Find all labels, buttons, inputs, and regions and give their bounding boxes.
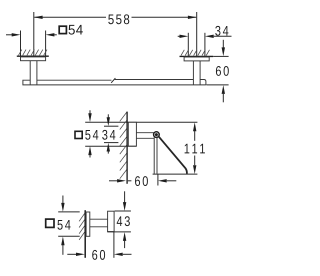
reference line 54 bottom bbox=[85, 145, 136, 147]
dimension 60 mid left arrow bbox=[117, 179, 126, 182]
dimension 54 bottom-up arrow bbox=[88, 146, 91, 155]
dimension 60 mid right arrow bbox=[158, 179, 167, 182]
dimension 558 right arrow bbox=[188, 16, 197, 19]
reference line 54 top bbox=[85, 121, 197, 123]
dimension 60 mid text bbox=[135, 176, 148, 186]
dimension 54 top-down arrow bbox=[88, 113, 91, 122]
dimension 558 line left segment bbox=[34, 16, 106, 18]
wall hatch right post bbox=[181, 50, 210, 56]
dimension 60 mid left stub bbox=[128, 180, 132, 182]
wall extension for 60 bbox=[213, 55, 228, 57]
wall line middle bbox=[126, 112, 128, 184]
dimension 54 right tail bbox=[54, 34, 56, 36]
dimension 111 text bbox=[185, 144, 205, 154]
dim 60 bottom left arrow bbox=[76, 253, 85, 256]
dimension 34 left arrow bbox=[180, 35, 189, 38]
dimension 111 bottom arrow bbox=[193, 165, 196, 174]
hook dim 54 bottom-up arrow bbox=[61, 237, 64, 246]
extension line 34 left edge bbox=[187, 33, 189, 57]
hook dim 54 bottom tail bbox=[62, 245, 64, 255]
flange bottom bbox=[86, 212, 90, 236]
dimension 54 right arrow bbox=[46, 33, 55, 36]
hook head bbox=[108, 211, 115, 231]
extension line left flange right edge bbox=[45, 31, 47, 57]
bar bottom extension line bbox=[206, 84, 228, 86]
right post stem bbox=[193, 61, 200, 85]
reference line 34 bottom bbox=[104, 142, 118, 144]
left flange bbox=[21, 57, 46, 61]
pivot circle bbox=[154, 132, 160, 138]
hook dim 54 top-down arrow bbox=[61, 203, 64, 212]
reference 43 bottom bbox=[107, 231, 131, 233]
dimension 60 top tail bbox=[222, 40, 224, 49]
extension line left flange left edge bbox=[20, 31, 22, 57]
dimension 60 bottom arrow bbox=[222, 85, 225, 94]
wall hatch bottom bbox=[79, 214, 85, 240]
extension line flap front bbox=[157, 175, 159, 186]
flap diagonal bbox=[159, 136, 187, 174]
dimension 558 text bbox=[108, 14, 129, 24]
bottom reference line bbox=[153, 173, 198, 175]
dimension 34 right tail bbox=[214, 35, 232, 37]
hook arm bbox=[90, 219, 108, 227]
dimension 60 text bbox=[216, 66, 229, 76]
dimension 54 bottom tail bbox=[89, 155, 91, 158]
dimension 54 left arrow bbox=[12, 33, 21, 36]
dimension 558 left arrow bbox=[34, 16, 43, 19]
dimension 60 mid left tail bbox=[109, 180, 117, 182]
dimension 111 line lower bbox=[194, 156, 196, 166]
dimension 60 bottom tail bbox=[222, 94, 224, 103]
dim 43 top tail bbox=[124, 191, 126, 202]
dimension 34 top-down arrow bbox=[107, 117, 110, 126]
square symbol top bbox=[59, 26, 66, 33]
dim 60 bottom right tail bbox=[123, 253, 132, 255]
pivot center dot bbox=[155, 133, 158, 136]
reference 43 top bbox=[115, 210, 131, 212]
dimension 34 text bbox=[215, 26, 228, 36]
dimension 54 left tail bbox=[6, 34, 13, 36]
extension line left post center bbox=[33, 12, 35, 56]
reference line 34 top bbox=[104, 125, 118, 127]
extension line right post center bbox=[196, 12, 198, 56]
wall line left post bbox=[17, 55, 49, 57]
towel bar body bbox=[23, 80, 206, 85]
towel bar break mark bbox=[111, 78, 115, 83]
wall line right post bbox=[180, 55, 214, 57]
dimension 111 top arrow bbox=[193, 122, 196, 131]
square symbol middle bbox=[75, 131, 82, 138]
extension line hook right edge bbox=[113, 232, 115, 258]
dimension 60 mid right tail bbox=[167, 180, 177, 182]
dim 43 bottom tail bbox=[124, 241, 126, 249]
text 34 middle bbox=[102, 130, 115, 140]
dim 43 bottom-up arrow bbox=[123, 232, 126, 241]
flange middle bbox=[128, 122, 136, 146]
flap front strip bbox=[154, 137, 157, 174]
hook text 54 bbox=[57, 220, 70, 230]
dimension 60 top arrow bbox=[222, 47, 225, 56]
dim 60 bottom right arrow bbox=[114, 253, 123, 256]
holder arm bbox=[136, 133, 154, 139]
dim 43 top-down arrow bbox=[123, 202, 126, 211]
wall hatch left post bbox=[19, 50, 48, 56]
dimension 34 top tail bbox=[107, 114, 109, 117]
square symbol bottom bbox=[46, 219, 54, 227]
dim 60 bottom left tail bbox=[67, 253, 76, 255]
hook dim 54 top tail bbox=[62, 196, 64, 204]
hook reference 54 bottom bbox=[58, 235, 79, 237]
dimension 54 top tail bbox=[89, 110, 91, 114]
dimension 34 right arrow bbox=[205, 35, 214, 38]
dimension 558 line right segment bbox=[132, 16, 197, 18]
dimension 43 text bbox=[117, 216, 130, 226]
extension line 34 right edge bbox=[204, 33, 206, 57]
left post stem bbox=[30, 61, 37, 85]
text 54 middle bbox=[85, 130, 98, 140]
wall hatch middle bbox=[120, 112, 127, 179]
wall line bottom bbox=[84, 210, 86, 258]
dimension 111 line upper bbox=[194, 131, 196, 141]
hook reference 54 top bbox=[58, 211, 79, 213]
dimension 34 bottom-up arrow bbox=[107, 143, 110, 152]
dimension 54 text bbox=[69, 25, 83, 35]
dimension 34 left tail bbox=[178, 35, 180, 37]
right flange bbox=[184, 57, 209, 61]
dimension 34 bottom tail bbox=[107, 151, 109, 153]
dimension 60 bottom text bbox=[92, 250, 105, 260]
